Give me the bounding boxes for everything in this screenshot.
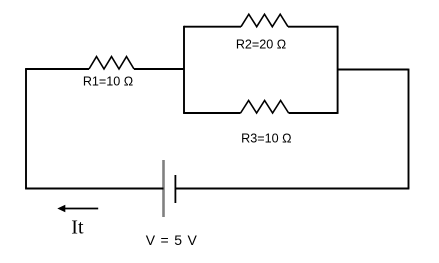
- battery V1: short plate (negative): [174, 175, 176, 203]
- svg-text:V = 5 V: V = 5 V: [146, 232, 198, 248]
- svg-text:It: It: [71, 217, 84, 239]
- wire: parallel box left side: [183, 26, 185, 113]
- wire: bottom right horizontal from right corner to battery short plate: [175, 188, 409, 190]
- wire: from box right node to right side of main loop: [338, 69, 409, 71]
- wire: box bottom side, R3 to bottom-right corner: [289, 112, 338, 114]
- svg-text:R1=10 Ω: R1=10 Ω: [83, 75, 133, 89]
- resistor R1: [89, 57, 134, 69]
- resistor R3: [241, 101, 289, 114]
- battery V1: long plate (positive): [162, 160, 165, 217]
- wire: from R1 to left node of parallel box: [134, 68, 184, 70]
- wire: box top side, left segment to R2: [184, 26, 241, 28]
- wire: top-left horizontal from left corner to R1: [25, 68, 89, 70]
- resistor R2: [241, 14, 288, 27]
- wire: box top side, R2 to top-right corner: [288, 26, 338, 28]
- svg-text:R2=20 Ω: R2=20 Ω: [236, 38, 286, 52]
- wire: left vertical side of main loop: [25, 69, 27, 189]
- wire: right vertical side of main loop: [408, 69, 410, 189]
- current arrow It (pointing left): [57, 205, 98, 213]
- wire: parallel box right side: [337, 26, 339, 114]
- wire: box bottom side, left segment to R3: [183, 112, 241, 114]
- wire: bottom left horizontal from battery long plate to left corner: [25, 188, 163, 190]
- svg-text:R3=10 Ω: R3=10 Ω: [241, 131, 291, 145]
